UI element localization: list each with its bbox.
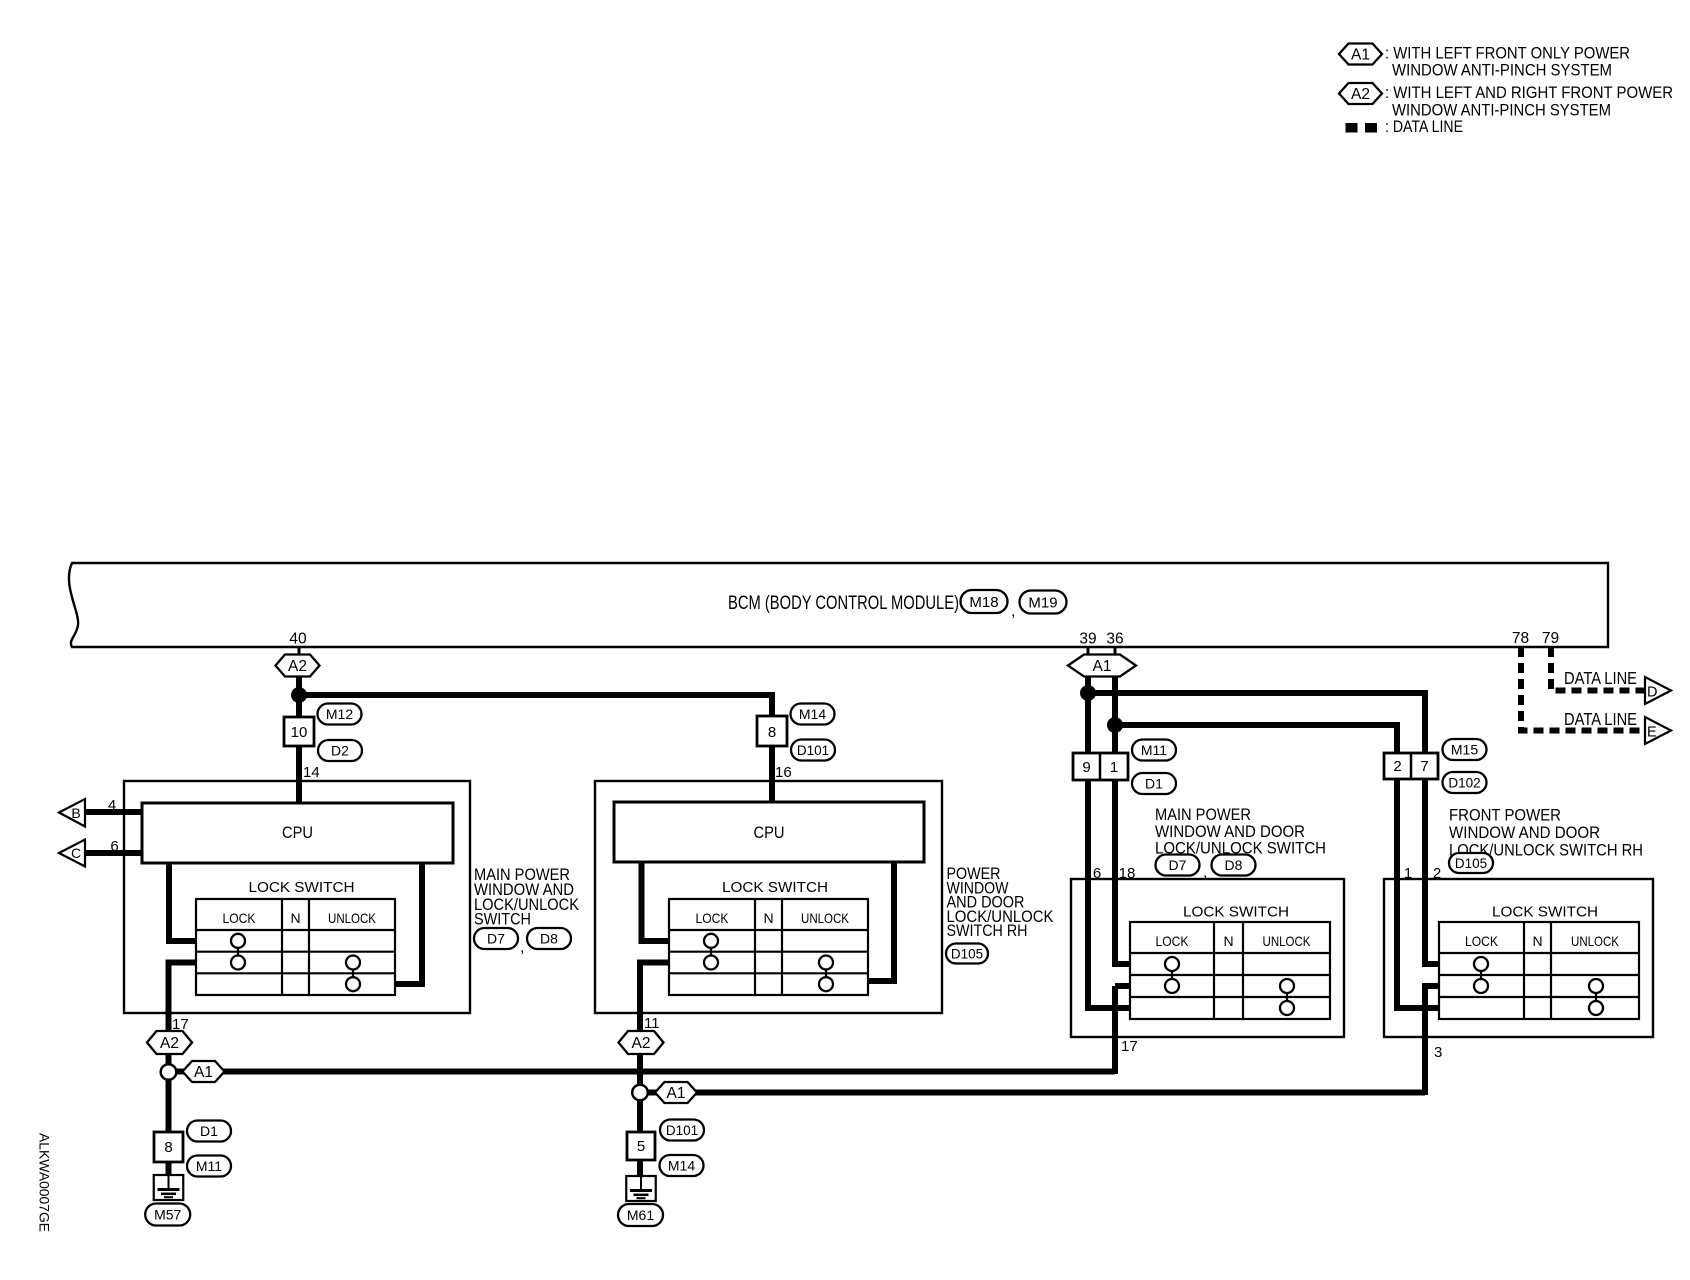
svg-text:D1: D1 — [200, 1123, 218, 1139]
svg-text:M11: M11 — [1141, 742, 1167, 758]
svg-text:D7: D7 — [1169, 857, 1187, 873]
svg-text:D101: D101 — [797, 743, 829, 758]
svg-text:FRONT POWER: FRONT POWER — [1449, 807, 1561, 825]
svg-text:A2: A2 — [160, 1035, 179, 1052]
svg-text:LOCK: LOCK — [696, 910, 730, 926]
svg-text:A2: A2 — [288, 658, 307, 675]
svg-text:9: 9 — [1082, 759, 1090, 776]
svg-text:3: 3 — [1434, 1044, 1442, 1061]
svg-text:10: 10 — [291, 724, 308, 741]
svg-text:2: 2 — [1433, 865, 1441, 882]
svg-text:M19: M19 — [1028, 594, 1057, 611]
svg-text:BCM (BODY CONTROL MODULE): BCM (BODY CONTROL MODULE) — [728, 593, 959, 614]
svg-text:MAIN POWER: MAIN POWER — [1155, 806, 1251, 824]
svg-text:UNLOCK: UNLOCK — [1571, 933, 1620, 949]
svg-text:CPU: CPU — [282, 824, 313, 842]
svg-text:40: 40 — [289, 631, 307, 648]
svg-text:5: 5 — [637, 1138, 645, 1155]
svg-text:E: E — [1647, 725, 1657, 741]
svg-text:A1: A1 — [194, 1064, 213, 1081]
svg-text:D8: D8 — [540, 931, 558, 947]
svg-text:8: 8 — [768, 724, 776, 741]
svg-text:UNLOCK: UNLOCK — [328, 910, 377, 926]
svg-text:N: N — [763, 910, 773, 926]
svg-text:A1: A1 — [1351, 47, 1370, 64]
svg-text:6: 6 — [1093, 865, 1101, 882]
svg-text:LOCK SWITCH: LOCK SWITCH — [722, 879, 828, 896]
svg-text:D105: D105 — [951, 946, 983, 961]
svg-text:SWITCH RH: SWITCH RH — [947, 922, 1028, 940]
svg-text:36: 36 — [1106, 631, 1123, 648]
svg-text:1: 1 — [1110, 759, 1118, 776]
svg-text:UNLOCK: UNLOCK — [1263, 933, 1312, 949]
svg-text:SWITCH: SWITCH — [474, 911, 531, 929]
svg-text:16: 16 — [775, 764, 792, 781]
svg-text:D: D — [1647, 685, 1657, 701]
svg-text:1: 1 — [1404, 865, 1412, 882]
svg-text:4: 4 — [108, 797, 116, 814]
svg-text:A1: A1 — [667, 1085, 686, 1102]
svg-text:M57: M57 — [154, 1207, 181, 1223]
svg-text:M61: M61 — [627, 1207, 654, 1223]
svg-text:DATA LINE: DATA LINE — [1564, 668, 1637, 688]
svg-text:8: 8 — [164, 1139, 172, 1156]
svg-text:LOCK SWITCH: LOCK SWITCH — [1492, 904, 1598, 921]
svg-text:D8: D8 — [1225, 857, 1243, 873]
svg-text:WINDOW AND DOOR: WINDOW AND DOOR — [1155, 823, 1305, 841]
svg-text:LOCK SWITCH: LOCK SWITCH — [1183, 904, 1289, 921]
svg-text:D102: D102 — [1448, 775, 1480, 790]
svg-text:6: 6 — [110, 838, 118, 855]
svg-text:D7: D7 — [487, 931, 505, 947]
svg-text:A2: A2 — [632, 1035, 651, 1052]
svg-text:N: N — [1223, 933, 1233, 949]
svg-text:7: 7 — [1420, 758, 1428, 775]
svg-text:17: 17 — [1121, 1038, 1138, 1055]
svg-text:: WITH LEFT AND RIGHT FRONT PO: : WITH LEFT AND RIGHT FRONT POWER — [1385, 83, 1673, 102]
svg-text:B: B — [71, 805, 80, 821]
svg-text:79: 79 — [1542, 630, 1559, 647]
svg-text:CPU: CPU — [754, 824, 785, 842]
svg-text:,: , — [1011, 603, 1015, 620]
svg-text:LOCK SWITCH: LOCK SWITCH — [249, 879, 355, 896]
svg-text:M12: M12 — [326, 706, 353, 722]
svg-text:D2: D2 — [331, 743, 349, 759]
svg-text:,: , — [520, 939, 524, 956]
svg-text:LOCK: LOCK — [1465, 933, 1499, 949]
svg-text:N: N — [290, 910, 300, 926]
svg-text:LOCK: LOCK — [223, 910, 257, 926]
svg-text:,: , — [1203, 864, 1207, 881]
svg-text:A1: A1 — [1093, 658, 1112, 675]
svg-text:ALKWA0007GE: ALKWA0007GE — [37, 1133, 53, 1232]
svg-text:M14: M14 — [799, 706, 826, 722]
svg-text:UNLOCK: UNLOCK — [801, 910, 850, 926]
svg-text:14: 14 — [303, 764, 320, 781]
svg-text:2: 2 — [1393, 758, 1401, 775]
svg-text:18: 18 — [1119, 865, 1136, 882]
svg-text:D101: D101 — [666, 1123, 698, 1138]
svg-text:11: 11 — [644, 1015, 660, 1032]
svg-text:DATA LINE: DATA LINE — [1564, 709, 1637, 729]
svg-text:M11: M11 — [196, 1158, 222, 1174]
svg-text:A2: A2 — [1351, 86, 1370, 103]
svg-text:C: C — [71, 845, 81, 861]
svg-text:78: 78 — [1512, 630, 1529, 647]
svg-text:M15: M15 — [1451, 742, 1478, 758]
svg-text:WINDOW ANTI-PINCH SYSTEM: WINDOW ANTI-PINCH SYSTEM — [1392, 61, 1612, 80]
svg-text:LOCK: LOCK — [1156, 933, 1190, 949]
svg-text:39: 39 — [1079, 631, 1096, 648]
svg-text:N: N — [1532, 933, 1542, 949]
svg-text:D105: D105 — [1455, 856, 1487, 871]
svg-text:D1: D1 — [1145, 776, 1163, 792]
svg-text:M18: M18 — [969, 594, 998, 611]
svg-text:WINDOW AND DOOR: WINDOW AND DOOR — [1449, 824, 1600, 842]
svg-text:M14: M14 — [668, 1158, 695, 1174]
svg-text:: DATA LINE: : DATA LINE — [1385, 117, 1463, 136]
